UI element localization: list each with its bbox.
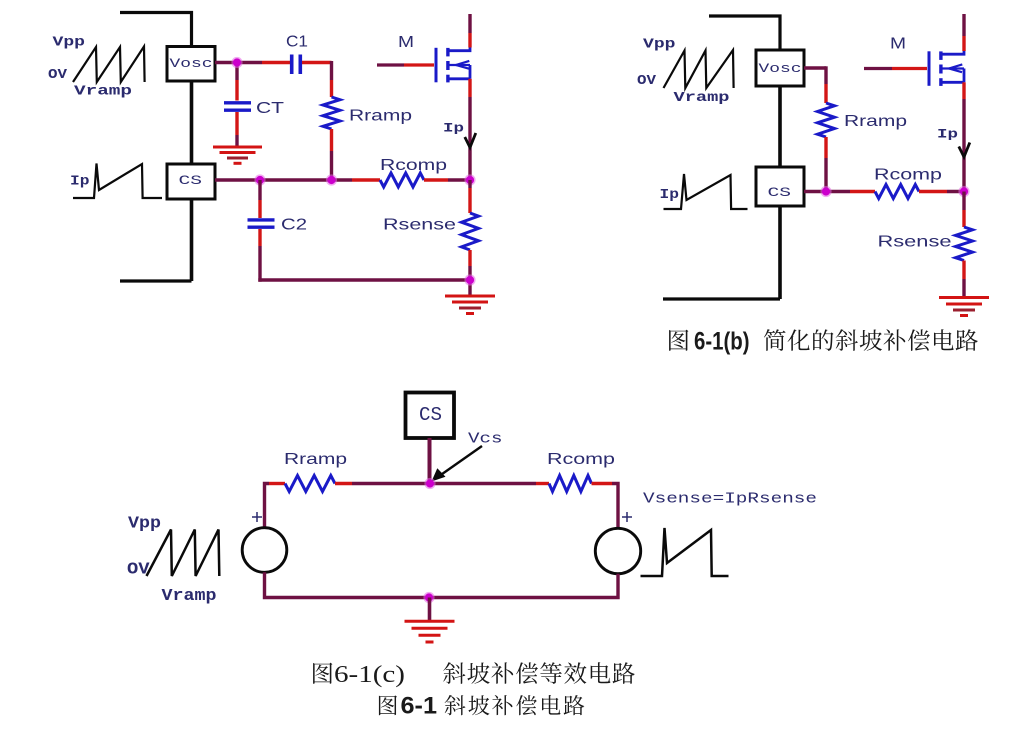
resistor Rcomp (circuit b) — [875, 185, 919, 199]
source Vsense generator (circuit c) — [595, 528, 640, 573]
svg-text:Rcomp: Rcomp — [547, 451, 615, 468]
waveform Vramp sawtooth (circuit c) — [147, 530, 220, 577]
resistor Rcomp (circuit a) — [380, 173, 424, 187]
svg-text:Ip: Ip — [70, 174, 90, 190]
wire node to Rcomp (circuit b) — [850, 190, 875, 193]
node CS-C2 junction (circuit a) — [254, 174, 265, 185]
transistor M (circuit b) — [928, 51, 931, 86]
block CS (circuit a) — [167, 164, 215, 199]
svg-text:Ip: Ip — [937, 127, 958, 142]
wire bottom return (circuit a) — [258, 278, 470, 281]
svg-text:Vcs: Vcs — [468, 431, 503, 448]
wire gate lead (circuit b) — [864, 67, 892, 70]
svg-text:Ip: Ip — [660, 187, 680, 203]
svg-text:Vsense=IpRsense: Vsense=IpRsense — [643, 491, 817, 508]
block Vosc (circuit a) — [167, 47, 215, 82]
wire Rcomp to sense node (circuit b) — [919, 190, 947, 193]
svg-text:6-1: 6-1 — [401, 693, 438, 720]
wire drain up (circuit b) — [962, 36, 965, 51]
svg-text:Rsense: Rsense — [383, 217, 456, 234]
source Vsense + sign (circuit c) — [622, 516, 632, 518]
node Vcs junction (circuit c) — [424, 478, 435, 489]
wire source down (circuit a) — [468, 79, 471, 97]
wire Rsense to ground (circuit b) — [962, 261, 965, 280]
wire source bottom left (circuit c) — [265, 572, 430, 597]
node drain-sense junction (circuit a) — [464, 174, 475, 185]
wire node to C2 (circuit a) — [258, 180, 261, 200]
wire - IC body Vosc-CS (circuit a) — [190, 81, 194, 164]
svg-text:Ip: Ip — [443, 121, 464, 136]
capacitor C2 — [248, 218, 275, 221]
wire Vosc to node (circuit a) — [215, 61, 262, 64]
waveform Vramp sawtooth (circuit a) — [73, 47, 145, 83]
waveform Vramp sawtooth (circuit b) — [664, 50, 734, 88]
svg-text:Rcomp: Rcomp — [874, 167, 942, 184]
node sense junction (circuit b) — [958, 186, 969, 197]
caption figure 6-1(c) — [313, 663, 332, 684]
svg-text:Vpp: Vpp — [53, 35, 86, 51]
wire - IC top stub (circuit a) — [120, 13, 192, 48]
waveform Ip sense (circuit c) — [641, 528, 729, 576]
ground (circuit c) — [405, 620, 455, 623]
source Vramp generator (circuit c) — [242, 528, 287, 573]
wire - IC body below CS (circuit a) — [190, 199, 194, 281]
resistor Rcomp (circuit c) — [549, 476, 592, 492]
wire Rcomp to corner (circuit c) — [592, 482, 613, 485]
wire CS output rail (circuit a) — [215, 178, 352, 181]
wire node to Rsense (circuit a) — [468, 180, 471, 188]
svg-text:6-1(c): 6-1(c) — [334, 662, 405, 688]
svg-text:Vosc: Vosc — [170, 56, 213, 71]
svg-text:Vramp: Vramp — [674, 90, 730, 106]
svg-text:CS: CS — [179, 173, 203, 188]
ground below Rsense (circuit a) — [445, 295, 495, 298]
wire to ground (circuit c) — [428, 598, 432, 622]
wire node to Rsense (circuit b) — [962, 192, 965, 211]
wire - IC body below CS (circuit b) — [778, 206, 782, 299]
svg-text:Vpp: Vpp — [128, 515, 161, 534]
svg-text:Rcomp: Rcomp — [380, 157, 447, 174]
wire C2 down (circuit a) — [258, 229, 261, 246]
ground below CT (circuit a) — [213, 146, 262, 149]
wire Rramp to CS node (circuit a) — [330, 129, 333, 151]
svg-text:Rsense: Rsense — [878, 234, 952, 251]
wire rail to Rcomp (circuit a) — [352, 178, 380, 181]
block CS (circuit b) — [756, 167, 804, 206]
wire drain up (circuit a) — [468, 33, 471, 48]
wire - IC body Vosc-CS (circuit b) — [778, 86, 782, 167]
svg-text:OV: OV — [127, 561, 150, 580]
resistor Rramp (circuit c) — [285, 476, 335, 492]
resistor Rsense (circuit a) — [462, 213, 479, 250]
resistor Rramp (circuit b) — [818, 103, 835, 137]
wire Rcomp to drain node (circuit a) — [424, 178, 448, 181]
resistor Rramp (circuit a) — [323, 97, 340, 129]
wire source down (circuit b) — [962, 82, 965, 99]
caption figure 6-1(b) — [669, 330, 688, 351]
arrow Ip direction (circuit b) — [959, 143, 970, 158]
wire source bottom right (circuit c) — [430, 574, 619, 598]
wire - IC bottom stub (circuit b) — [663, 297, 780, 300]
wire node to Rcomp (circuit c) — [536, 482, 549, 485]
block CS (circuit c) — [406, 393, 455, 439]
wire gate lead (circuit a) — [377, 63, 404, 66]
wire corner to Rramp (circuit b) — [824, 66, 827, 84]
caption figure 6-1 title — [379, 695, 397, 715]
svg-text:CT: CT — [256, 100, 284, 117]
svg-text:Vpp: Vpp — [643, 37, 676, 53]
wire CS down to node (circuit c) — [428, 438, 432, 484]
wire corner down to Rramp (circuit a) — [330, 61, 333, 80]
wire Rramp to node (circuit c) — [335, 482, 352, 485]
svg-text:CS: CS — [419, 404, 442, 426]
wire Rsense to ground (circuit a) — [468, 250, 471, 266]
capacitor CT — [224, 101, 251, 104]
svg-text:M: M — [398, 34, 414, 51]
svg-text:Vramp: Vramp — [74, 84, 132, 100]
svg-text:Vramp: Vramp — [162, 587, 217, 606]
wire Vosc to corner (circuit b) — [804, 66, 826, 69]
source Vramp + sign (circuit c) — [252, 516, 262, 518]
svg-text:OV: OV — [637, 73, 657, 89]
transistor M (circuit a) — [435, 48, 438, 83]
node CS junction (circuit b) — [820, 186, 831, 197]
svg-text:M: M — [890, 36, 906, 53]
svg-text:CS: CS — [768, 185, 792, 200]
node at Vosc output (circuit a) — [231, 57, 242, 68]
wire CS to node (circuit b) — [804, 190, 850, 193]
svg-text:Rramp: Rramp — [844, 113, 907, 130]
wire Rramp to CS node (circuit b) — [824, 137, 827, 158]
waveform Ip (circuit a) — [73, 164, 162, 199]
wire to Rramp (circuit c) — [269, 482, 285, 485]
wire node to C1 (circuit a) — [262, 61, 290, 64]
node Rsense bottom junction (circuit a) — [464, 274, 475, 285]
svg-text:Vosc: Vosc — [759, 61, 802, 76]
svg-text:Rramp: Rramp — [284, 451, 347, 468]
resistor Rsense (circuit b) — [956, 227, 973, 261]
wire C1 to corner (circuit a) — [302, 61, 332, 64]
node ground junction (circuit c) — [423, 592, 434, 603]
waveform Ip (circuit b) — [664, 174, 748, 209]
wire - IC top stub (circuit b) — [709, 16, 780, 51]
svg-text:Rramp: Rramp — [349, 108, 412, 125]
wire top-left corner (circuit c) — [265, 484, 270, 529]
svg-text:C1: C1 — [286, 34, 308, 51]
wire - IC bottom stub (circuit a) — [120, 279, 192, 282]
svg-text:6-1(b): 6-1(b) — [694, 328, 750, 356]
arrow Vcs pointer (circuit c) — [435, 446, 482, 479]
wire node down to CT (circuit a) — [235, 63, 238, 81]
ground below Rsense (circuit b) — [939, 296, 989, 299]
arrow Ip direction (circuit a) — [465, 133, 476, 148]
svg-text:OV: OV — [48, 67, 68, 83]
capacitor C1 — [290, 55, 294, 75]
node CS-Rramp junction (circuit a) — [326, 174, 337, 185]
wire CT to ground (circuit a) — [235, 112, 238, 135]
svg-text:C2: C2 — [281, 217, 307, 234]
block Vosc (circuit b) — [756, 50, 804, 86]
